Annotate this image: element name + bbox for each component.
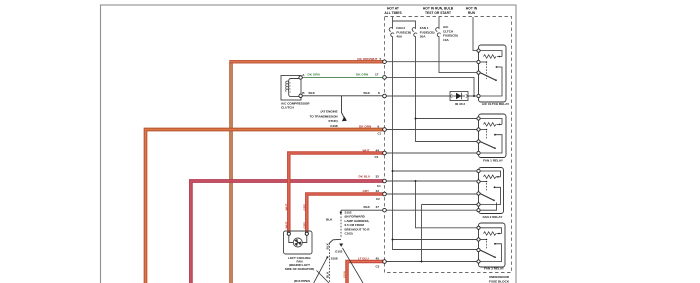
svg-text:5: 5 xyxy=(380,57,382,61)
svg-text:CLUTCH: CLUTCH xyxy=(281,106,294,110)
svg-text:17: 17 xyxy=(375,73,379,77)
svg-text:BLK: BLK xyxy=(364,205,371,209)
svg-text:UNDERHOOD: UNDERHOOD xyxy=(489,275,510,279)
svg-text:DK GRN: DK GRN xyxy=(356,73,369,77)
svg-text:BLK: BLK xyxy=(326,218,333,222)
svg-text:C1: C1 xyxy=(377,184,381,188)
svg-text:FAN 3 RELAY: FAN 3 RELAY xyxy=(484,266,505,270)
svg-text:FAN 2 RELAY: FAN 2 RELAY xyxy=(483,215,504,219)
svg-text:RUN: RUN xyxy=(468,11,476,15)
svg-text:C2: C2 xyxy=(376,197,380,201)
svg-text:10A: 10A xyxy=(443,38,449,42)
svg-text:HOT IN RUN, BULB: HOT IN RUN, BULB xyxy=(423,6,454,10)
svg-text:DK ORN: DK ORN xyxy=(359,125,372,129)
svg-text:FAN 1 RELAY: FAN 1 RELAY xyxy=(483,158,504,162)
svg-text:ORN: ORN xyxy=(342,270,346,278)
svg-text:HOT AT: HOT AT xyxy=(387,6,399,10)
svg-text:30 30 2: 30 30 2 xyxy=(455,102,466,106)
svg-text:G108: G108 xyxy=(330,124,338,128)
svg-text:30A: 30A xyxy=(420,35,426,39)
svg-text:STUD): STUD) xyxy=(328,119,337,123)
svg-text:32: 32 xyxy=(376,175,380,179)
svg-text:WHT: WHT xyxy=(363,148,370,152)
svg-text:DK ORN/WHT: DK ORN/WHT xyxy=(357,57,377,61)
svg-text:BLK: BLK xyxy=(326,271,330,278)
svg-text:A/C CLTCH RELAY: A/C CLTCH RELAY xyxy=(482,102,510,106)
svg-text:BLK: BLK xyxy=(326,242,330,249)
svg-text:C102): C102) xyxy=(345,232,353,236)
svg-text:BLK: BLK xyxy=(364,91,371,95)
svg-text:GRY: GRY xyxy=(363,189,371,193)
svg-text:DK GRN: DK GRN xyxy=(308,73,321,77)
svg-text:(R13 PIPES: (R13 PIPES xyxy=(294,279,310,283)
svg-text:C2: C2 xyxy=(375,155,379,159)
svg-text:(AT ENGINE: (AT ENGINE xyxy=(320,110,337,114)
svg-text:G102: G102 xyxy=(335,249,343,253)
svg-text:BLK: BLK xyxy=(309,91,316,95)
svg-text:6: 6 xyxy=(378,125,380,129)
svg-text:45: 45 xyxy=(376,256,380,260)
svg-text:LT BLU: LT BLU xyxy=(358,256,370,260)
svg-text:TO TRANSMISSION: TO TRANSMISSION xyxy=(310,115,338,119)
svg-text:FUSE BLOCK: FUSE BLOCK xyxy=(489,280,510,283)
svg-text:C1: C1 xyxy=(378,132,382,136)
svg-text:SIDE OF RADIATOR): SIDE OF RADIATOR) xyxy=(285,267,314,271)
svg-text:TEST OR START: TEST OR START xyxy=(425,11,451,15)
svg-text:GRY: GRY xyxy=(303,203,307,211)
svg-text:8: 8 xyxy=(378,91,380,95)
svg-text:47: 47 xyxy=(376,205,380,209)
svg-text:HOT IN: HOT IN xyxy=(466,6,478,10)
svg-text:S108: S108 xyxy=(331,257,338,261)
svg-text:ALL TIMES: ALL TIMES xyxy=(384,11,402,15)
svg-text:44: 44 xyxy=(376,148,380,152)
svg-text:C3: C3 xyxy=(376,265,380,269)
svg-text:GRY: GRY xyxy=(303,221,307,229)
svg-text:40A: 40A xyxy=(396,35,402,39)
svg-text:WHT: WHT xyxy=(285,203,289,210)
svg-text:43: 43 xyxy=(376,189,380,193)
svg-text:DK BLU: DK BLU xyxy=(359,175,371,179)
svg-text:WHT: WHT xyxy=(285,221,289,228)
